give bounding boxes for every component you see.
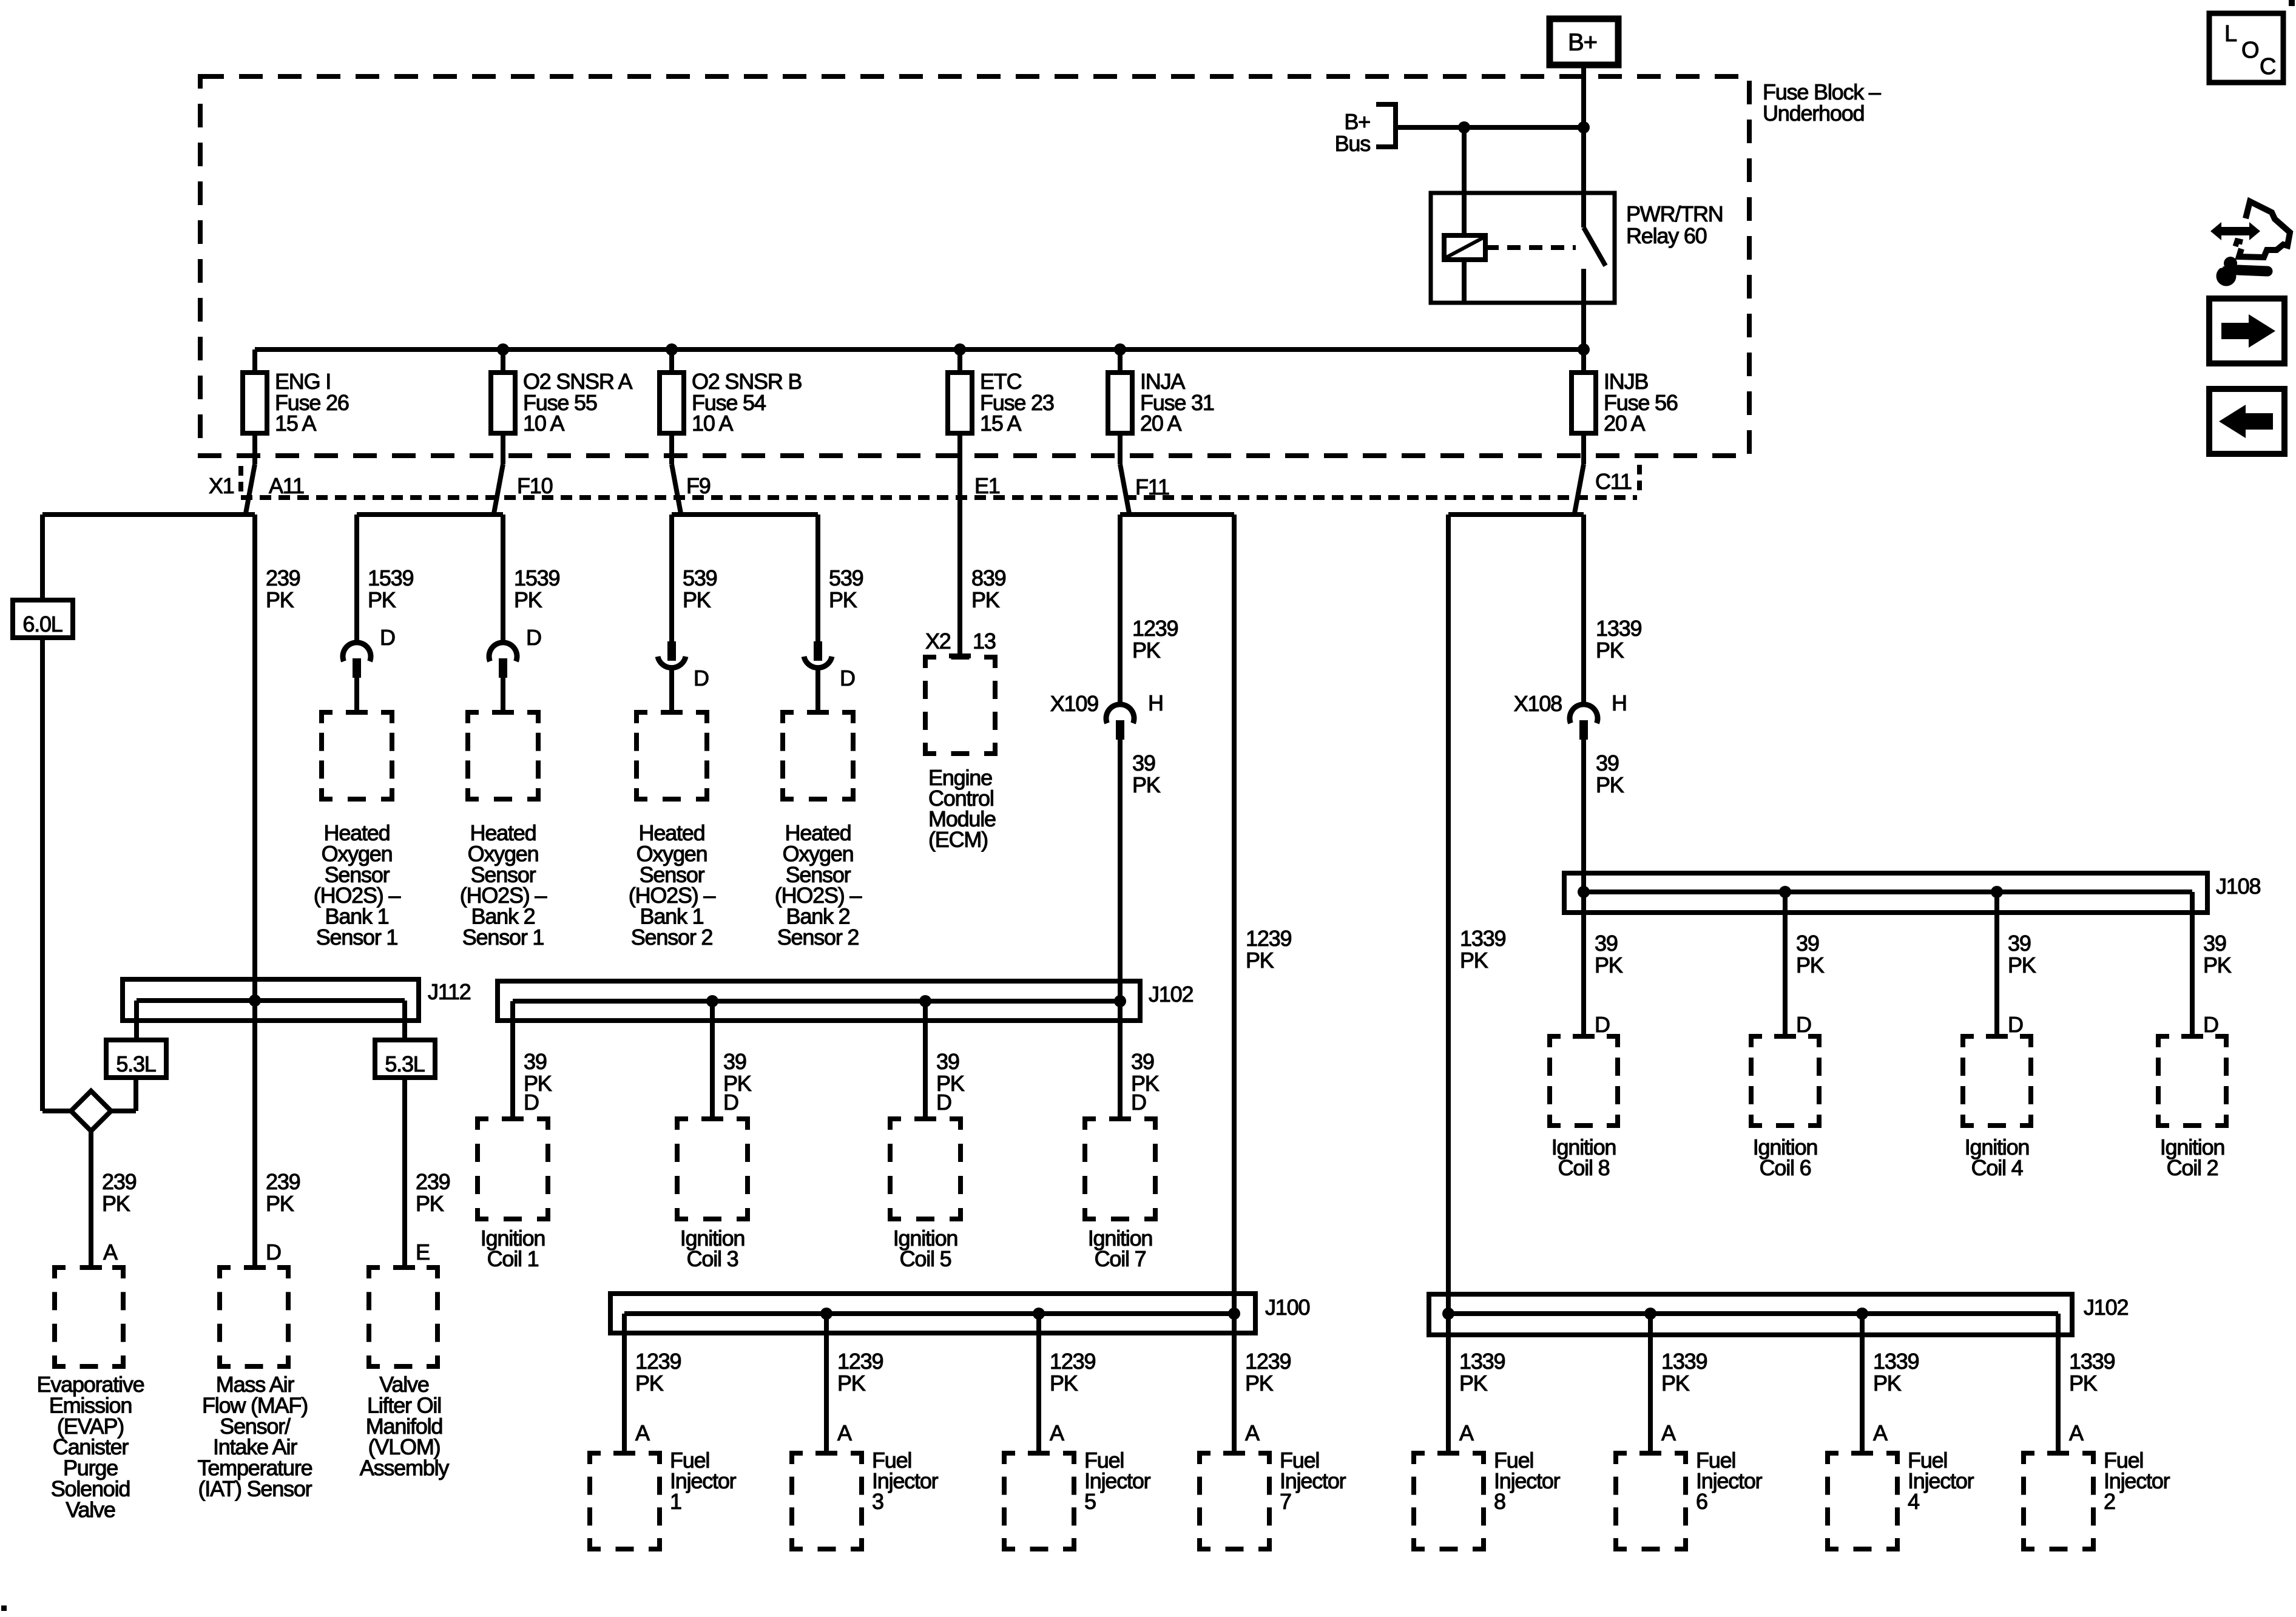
engine control module ECM: [925, 656, 996, 852]
wire C11 pass-through: [1575, 464, 1584, 513]
svg-text:A: A: [1459, 1420, 1474, 1445]
wire 1339 PK long to J102: [1446, 515, 1451, 1314]
node bus/relay output: [1578, 343, 1590, 356]
wire label 1239 PK injector 3: [837, 1349, 883, 1445]
relay coil: [1444, 235, 1485, 260]
wire label 1239 PK injector 1: [635, 1349, 681, 1445]
wire F10 jog left: [357, 512, 503, 517]
engine option 5.3L tag (right): [375, 1040, 435, 1078]
svg-text:39: 39: [1131, 1049, 1154, 1074]
svg-text:J100: J100: [1265, 1295, 1309, 1320]
evaporative emission EVAP canister purge solenoid valve: [37, 1268, 144, 1522]
svg-text:13: 13: [973, 629, 996, 653]
svg-text:239: 239: [102, 1169, 137, 1194]
wire J102 to coil 7: [1118, 1001, 1123, 1119]
wire F9 jog right: [672, 512, 818, 517]
svg-text:1239: 1239: [837, 1349, 883, 1374]
wire label 239 PK VLOM: [416, 1169, 450, 1264]
svg-text:D: D: [2008, 1012, 2023, 1037]
svg-text:J102: J102: [2084, 1295, 2128, 1320]
svg-text:1339: 1339: [2069, 1349, 2115, 1374]
svg-text:39: 39: [1596, 751, 1619, 775]
wire label 39 PK coil 4: [2008, 931, 2036, 1037]
svg-text:239: 239: [266, 565, 300, 590]
wire 1539 PK to HO2S B2S1: [501, 515, 505, 643]
svg-text:D: D: [723, 1090, 738, 1115]
svg-text:39: 39: [2203, 931, 2226, 956]
svg-text:PK: PK: [2008, 953, 2036, 977]
svg-text:PK: PK: [1460, 948, 1488, 973]
fuel injector 6: [1616, 1448, 1763, 1549]
svg-text:X2: X2: [925, 629, 951, 653]
wire 1339 PK to X108: [1581, 515, 1586, 704]
wire label 39 PK coil 3: [723, 1049, 752, 1115]
svg-text:PK: PK: [416, 1191, 444, 1216]
svg-text:6.0L: 6.0L: [22, 612, 62, 636]
connector C11 separator: [1637, 465, 1642, 491]
svg-text:A: A: [635, 1420, 650, 1445]
svg-text:1239: 1239: [1132, 616, 1178, 641]
svg-text:D: D: [1595, 1012, 1610, 1037]
svg-text:PK: PK: [266, 1191, 294, 1216]
svg-text:D: D: [1131, 1090, 1146, 1115]
icon arrow left box: [2209, 389, 2284, 454]
wire label 1339 PK injector 6: [1661, 1349, 1707, 1445]
node B+ bus / B+ feed: [1578, 121, 1590, 133]
wire label 1339 PK: [1596, 616, 1641, 663]
svg-text:L: L: [2224, 21, 2237, 47]
svg-text:39: 39: [1595, 931, 1618, 956]
node bus/fuse55: [497, 343, 509, 356]
svg-text:O: O: [2241, 38, 2258, 63]
svg-text:PK: PK: [837, 1371, 866, 1396]
svg-text:Coil 8: Coil 8: [1558, 1155, 1610, 1180]
wire 539 PK to HO2S B2S2: [815, 515, 820, 641]
connector inline HO2S Bank 1 Sensor 2: [658, 641, 709, 712]
node bus/fuse23: [954, 343, 966, 356]
wire 39 PK below X109: [1120, 740, 1161, 1002]
svg-text:1239: 1239: [1245, 1349, 1291, 1374]
svg-text:15 A: 15 A: [275, 411, 316, 436]
svg-text:Sensor 2: Sensor 2: [777, 925, 859, 950]
relay coil-switch dashed link: [1485, 245, 1576, 250]
svg-text:B+: B+: [1568, 29, 1597, 56]
wire 539 PK to HO2S B1S2: [669, 515, 674, 641]
wire labels circuit numbers upper: [266, 565, 1006, 612]
connector X1 separator: [238, 466, 243, 493]
svg-text:5: 5: [1084, 1489, 1096, 1514]
wire main feed bus: [255, 347, 1584, 352]
wire diamond to 5.3L tag: [111, 1078, 136, 1111]
fuse INJB Fuse 56 20 A: [1572, 349, 1678, 464]
svg-text:PK: PK: [683, 587, 711, 612]
svg-text:39: 39: [524, 1049, 547, 1074]
svg-text:PK: PK: [635, 1371, 664, 1396]
svg-text:PK: PK: [1796, 953, 1825, 977]
svg-text:(IAT) Sensor: (IAT) Sensor: [198, 1476, 312, 1501]
svg-text:D: D: [380, 625, 395, 650]
ignition coil 2: [2158, 1036, 2226, 1180]
wire B+ vertical into relay: [1581, 65, 1586, 193]
wire label 39 PK coil 6: [1796, 931, 1825, 1037]
svg-text:539: 539: [683, 565, 717, 590]
svg-text:A: A: [1245, 1420, 1260, 1445]
svg-text:1239: 1239: [1050, 1349, 1095, 1374]
svg-text:Coil 1: Coil 1: [487, 1246, 539, 1271]
svg-text:D: D: [840, 666, 855, 690]
svg-text:2: 2: [2104, 1489, 2115, 1514]
connector inline HO2S Bank 1 Sensor 1: [343, 625, 395, 712]
svg-text:10 A: 10 A: [523, 411, 564, 436]
svg-text:PK: PK: [1132, 638, 1161, 663]
svg-text:PK: PK: [514, 587, 542, 612]
heated oxygen sensor HO2S Bank 1 Sensor 2: [629, 712, 716, 950]
svg-text:C: C: [2260, 54, 2275, 79]
wire label 1239 PK injector 5: [1050, 1349, 1095, 1445]
svg-text:PK: PK: [1873, 1371, 1902, 1396]
wire 1539 PK to HO2S B1S1: [354, 515, 359, 643]
engine option 5.3L tag (left): [106, 1040, 166, 1078]
fuse O2 SNSR A Fuse 55 10 A: [491, 349, 632, 464]
wire 5.3L to VLOM: [402, 1078, 407, 1268]
ignition coil 7: [1085, 1119, 1155, 1271]
svg-text:D: D: [694, 666, 709, 690]
B+ Bus tap: [1335, 102, 1396, 156]
B+ terminal: [1550, 19, 1618, 65]
wire 5.3L tag to J112: [134, 1001, 139, 1040]
node bus/fuse31: [1114, 343, 1126, 356]
wire label 239 PK EVAP: [102, 1169, 137, 1264]
connector inline HO2S Bank 2 Sensor 2: [804, 641, 855, 712]
fuel injector 1: [590, 1448, 737, 1549]
wire label 39 PK coil 8: [1595, 931, 1623, 1037]
svg-text:Coil 2: Coil 2: [2167, 1155, 2218, 1180]
svg-text:1339: 1339: [1460, 926, 1505, 951]
wire J112 to 5.3L tag (right): [402, 1001, 407, 1040]
svg-text:A: A: [837, 1420, 852, 1445]
svg-text:D: D: [526, 625, 541, 650]
svg-text:PK: PK: [1245, 1371, 1274, 1396]
wire relay coil to box bottom: [1462, 260, 1467, 303]
wire label 39 PK coil 1: [524, 1049, 552, 1115]
fuel injector 3: [792, 1448, 939, 1549]
wire B+ bus horizontal: [1396, 125, 1584, 130]
heated oxygen sensor HO2S Bank 2 Sensor 2: [775, 712, 862, 950]
svg-text:X109: X109: [1050, 691, 1098, 716]
fuse ETC Fuse 23 15 A: [948, 349, 1054, 464]
svg-text:Assembly: Assembly: [360, 1456, 450, 1480]
svg-text:839: 839: [971, 565, 1006, 590]
heated oxygen sensor HO2S Bank 2 Sensor 1: [460, 712, 547, 950]
ignition coil 3: [677, 1119, 748, 1271]
fuel injector 5: [1004, 1448, 1151, 1549]
fuse ENG I Fuse 26 15 A: [243, 349, 349, 464]
wire label 39 PK coil 2: [2203, 931, 2232, 1037]
svg-text:A11: A11: [269, 473, 304, 498]
wire 6.0L branch vertical: [40, 515, 45, 600]
page corner mark bottom left: [1, 1605, 7, 1611]
wire 39 PK below X108: [1584, 740, 1624, 893]
wire J100 to injector 7: [1232, 1314, 1237, 1453]
svg-text:5.3L: 5.3L: [116, 1052, 155, 1076]
wire relay output to bus: [1581, 269, 1586, 373]
ignition coil 8: [1550, 1036, 1618, 1180]
svg-text:239: 239: [416, 1169, 450, 1194]
svg-text:Coil 6: Coil 6: [1760, 1155, 1811, 1180]
svg-text:E: E: [416, 1240, 430, 1264]
junction block J112: [123, 979, 471, 1021]
svg-text:D: D: [266, 1240, 281, 1264]
svg-text:PK: PK: [1595, 953, 1623, 977]
wire F10 pass-through: [494, 464, 503, 513]
connector row X1 dotted line: [241, 495, 1637, 500]
connector X109: [1050, 690, 1163, 740]
svg-text:D: D: [2203, 1012, 2218, 1037]
ignition coil 4: [1963, 1036, 2031, 1180]
wire label 1239 PK: [1132, 616, 1178, 663]
connector X108: [1514, 690, 1627, 740]
svg-text:J112: J112: [428, 979, 471, 1004]
ignition coil 6: [1751, 1036, 1819, 1180]
svg-text:Sensor 1: Sensor 1: [316, 925, 398, 950]
svg-text:20 A: 20 A: [1140, 411, 1181, 436]
svg-text:1339: 1339: [1661, 1349, 1707, 1374]
svg-text:1239: 1239: [635, 1349, 681, 1374]
wire label 39 PK coil 5: [936, 1049, 965, 1115]
svg-text:Valve: Valve: [66, 1497, 115, 1522]
svg-text:A: A: [1873, 1420, 1888, 1445]
svg-text:F11: F11: [1135, 474, 1169, 499]
fuse block - underhood dashed boundary: [200, 76, 1749, 456]
svg-text:D: D: [1796, 1012, 1811, 1037]
svg-text:Sensor 2: Sensor 2: [631, 925, 713, 950]
svg-text:4: 4: [1908, 1489, 1919, 1514]
svg-text:1: 1: [670, 1489, 681, 1514]
svg-text:539: 539: [829, 565, 863, 590]
svg-text:39: 39: [723, 1049, 746, 1074]
svg-text:1539: 1539: [514, 565, 559, 590]
svg-text:B+: B+: [1344, 109, 1370, 134]
junction block J102 (coils 1 3 5 7): [498, 981, 1193, 1119]
connector pin labels: [209, 469, 1632, 499]
svg-text:1539: 1539: [368, 565, 413, 590]
fuel injector 8: [1414, 1448, 1561, 1549]
wire F9 pass-through: [672, 464, 681, 513]
svg-text:PK: PK: [266, 587, 294, 612]
wire 1239 PK long to J100: [1232, 515, 1237, 1314]
svg-text:Coil 5: Coil 5: [900, 1246, 951, 1271]
fuel injector 2: [2024, 1448, 2170, 1549]
junction block J100: [610, 1294, 1309, 1453]
svg-text:PK: PK: [1246, 948, 1274, 973]
svg-text:1339: 1339: [1596, 616, 1641, 641]
fuse O2 SNSR B Fuse 54 10 A: [660, 349, 802, 464]
junction block J108: [1564, 873, 2260, 1036]
svg-text:Coil 4: Coil 4: [1971, 1155, 2023, 1180]
svg-text:PK: PK: [1596, 772, 1624, 797]
wire label 1239 PK (J100 feed): [1246, 926, 1291, 973]
svg-text:Coil 3: Coil 3: [687, 1246, 738, 1271]
svg-text:A: A: [103, 1240, 118, 1264]
svg-text:1339: 1339: [1873, 1349, 1919, 1374]
connector inline HO2S Bank 2 Sensor 1: [489, 625, 541, 712]
wire label 239 PK MAF: [266, 1169, 300, 1264]
svg-text:Sensor 1: Sensor 1: [462, 925, 544, 950]
wire label 1339 PK injector 2: [2069, 1349, 2115, 1445]
svg-text:PK: PK: [1050, 1371, 1078, 1396]
wire label 1339 PK injector 4: [1873, 1349, 1919, 1445]
svg-text:PWR/TRN: PWR/TRN: [1626, 201, 1723, 226]
svg-text:(ECM): (ECM): [928, 827, 988, 852]
wire label 1339 PK injector 8: [1459, 1349, 1505, 1445]
ignition coil 1: [478, 1119, 548, 1271]
wire C11 jog left: [1448, 512, 1584, 517]
svg-text:H: H: [1148, 690, 1163, 715]
junction block J102 (injectors 8 6 4 2): [1429, 1294, 2128, 1453]
svg-text:J108: J108: [2216, 874, 2260, 899]
svg-text:PK: PK: [1132, 772, 1161, 797]
node B+ bus / relay coil: [1458, 121, 1470, 133]
wire E1 straight through: [957, 433, 962, 656]
wire A11 jog left to 6.0L branch: [42, 512, 255, 517]
fuel injector 4: [1828, 1448, 1974, 1549]
wire label 1339 PK (J102 feed): [1460, 926, 1505, 973]
svg-text:D: D: [524, 1090, 539, 1115]
svg-text:PK: PK: [829, 587, 857, 612]
svg-text:A: A: [1050, 1420, 1064, 1445]
svg-text:5.3L: 5.3L: [385, 1052, 424, 1076]
wire label 39 PK coil 7: [1131, 1049, 1160, 1115]
engine option 6.0L tag: [13, 600, 73, 638]
node bus/fuse54: [666, 343, 678, 356]
svg-text:1239: 1239: [1246, 926, 1291, 951]
svg-text:F9: F9: [686, 473, 711, 498]
svg-text:PK: PK: [2203, 953, 2232, 977]
svg-text:F10: F10: [517, 473, 553, 498]
svg-text:PK: PK: [102, 1191, 130, 1216]
svg-text:1339: 1339: [1459, 1349, 1505, 1374]
svg-text:PK: PK: [971, 587, 1000, 612]
node X2 pin 13 labels: [925, 629, 996, 653]
svg-text:6: 6: [1696, 1489, 1707, 1514]
svg-text:PK: PK: [1661, 1371, 1690, 1396]
icon LOC box: [2209, 13, 2283, 83]
ignition coil 5: [890, 1119, 961, 1271]
icon arrow right box: [2209, 299, 2284, 363]
svg-text:A: A: [1661, 1420, 1676, 1445]
mass air flow MAF IAT sensor: [198, 1268, 312, 1501]
svg-text:J102: J102: [1149, 982, 1193, 1007]
wire F11 pass-through: [1120, 464, 1129, 513]
wire 6.0L tag to splice diamond: [42, 638, 71, 1111]
fuse block label: [1763, 79, 1881, 126]
svg-text:X108: X108: [1514, 691, 1562, 716]
svg-text:C11: C11: [1595, 469, 1632, 494]
svg-text:39: 39: [1796, 931, 1819, 956]
splice diamond: [71, 1091, 111, 1131]
svg-text:Coil 7: Coil 7: [1095, 1246, 1146, 1271]
svg-text:H: H: [1612, 690, 1627, 715]
wire F11 jog right: [1120, 512, 1234, 517]
svg-text:20 A: 20 A: [1604, 411, 1645, 436]
fuse INJA Fuse 31 20 A: [1108, 349, 1214, 464]
svg-text:3: 3: [872, 1489, 883, 1514]
svg-text:39: 39: [2008, 931, 2031, 956]
svg-text:X1: X1: [209, 473, 234, 498]
heated oxygen sensor HO2S Bank 1 Sensor 1: [314, 712, 401, 950]
svg-text:E1: E1: [974, 473, 1000, 498]
svg-text:Relay 60: Relay 60: [1626, 223, 1707, 248]
wire 239 PK down from A11: [252, 515, 257, 1268]
svg-text:PK: PK: [368, 587, 396, 612]
svg-text:15 A: 15 A: [980, 411, 1021, 436]
svg-text:A: A: [2069, 1420, 2084, 1445]
page corner mark top right: [2289, 0, 2295, 6]
svg-text:39: 39: [936, 1049, 959, 1074]
svg-text:7: 7: [1280, 1489, 1291, 1514]
wire A11 pass-through: [246, 464, 255, 513]
wire diamond to EVAP: [89, 1131, 93, 1268]
svg-text:239: 239: [266, 1169, 300, 1194]
svg-text:10 A: 10 A: [692, 411, 733, 436]
wire relay coil feed: [1462, 127, 1467, 235]
svg-text:8: 8: [1494, 1489, 1505, 1514]
fuel injector 7: [1200, 1448, 1346, 1549]
relay switch contact and arm: [1584, 193, 1606, 266]
relay label: [1626, 201, 1723, 248]
svg-text:PK: PK: [2069, 1371, 2098, 1396]
svg-text:Bus: Bus: [1335, 131, 1371, 156]
svg-text:Underhood: Underhood: [1763, 101, 1864, 126]
svg-text:PK: PK: [1459, 1371, 1488, 1396]
svg-text:39: 39: [1132, 751, 1155, 775]
wire 1239 PK to X109: [1118, 515, 1123, 704]
relay PWR/TRN Relay 60 box: [1431, 193, 1615, 303]
svg-text:D: D: [936, 1090, 951, 1115]
wire label 1239 PK injector 7: [1245, 1349, 1291, 1445]
valve lifter oil manifold VLOM assembly: [360, 1268, 450, 1480]
icon hand with double arrow and wrench: [2204, 201, 2290, 286]
svg-text:PK: PK: [1596, 638, 1624, 663]
